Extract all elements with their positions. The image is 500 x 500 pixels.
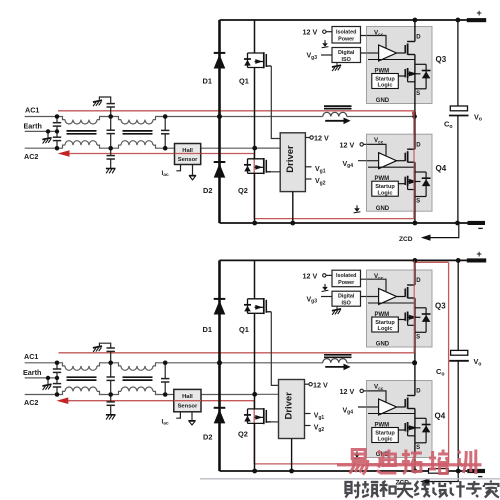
wire phase sense to driver (top): [255, 147, 281, 149]
ground at Earth node (top): [47, 131, 49, 137]
wire Q1 gate to driver (top): [271, 66, 280, 139]
wire driver to bottom bus (top): [292, 192, 294, 223]
wire red down fast leg: [413, 111, 415, 219]
wire isolated power to Vcc (top): [361, 36, 387, 49]
svg-text:Co: Co: [436, 367, 445, 378]
svg-text:Isolated: Isolated: [336, 29, 356, 35]
svg-text:D2: D2: [203, 186, 212, 195]
driver Vg1 pin (bottom): [305, 413, 311, 415]
wire Vcc feed inside block (bottom Q3): [367, 279, 387, 292]
svg-text:12 V: 12 V: [340, 140, 355, 149]
wire phase sense to driver (bottom): [255, 393, 279, 395]
bottom bus (bottom circuit): [220, 470, 430, 472]
Digital ISO box (top): [332, 48, 361, 63]
wire Vg4 to gate amp (top Q4): [358, 160, 379, 162]
svg-text:Vg4: Vg4: [343, 161, 354, 169]
wire AC2 / neutral line (top): [25, 141, 255, 149]
lower Y-cap + ground center (top): [110, 148, 112, 168]
positive terminal (bottom): [467, 258, 486, 262]
wire Vcc feed inside block (top Q4): [367, 144, 387, 156]
Driver box (top): [280, 133, 305, 192]
svg-text:12 V: 12 V: [340, 387, 355, 396]
positive terminal (top): [467, 18, 486, 22]
footer gray character 设: [433, 482, 448, 498]
wire Q2 gate to driver (bottom): [271, 421, 278, 423]
wire red AC2 return: [67, 400, 254, 402]
red wire through hall (top, overdrawn): [175, 153, 201, 155]
Isolated Power box (bottom): [332, 270, 361, 287]
wire Q2 gate to driver (top): [271, 171, 280, 173]
red overlay up fast leg over IC block (bottom): [413, 261, 415, 353]
watermark red character 拓: [402, 450, 422, 474]
wire input to amp inside block (bottom Q3): [367, 296, 379, 298]
ground at Earth node (bottom): [47, 378, 49, 384]
svg-text:Q1: Q1: [239, 77, 249, 86]
choke CM2 core (top): [123, 131, 153, 134]
svg-text:D1: D1: [203, 325, 212, 334]
capacitor CY1/CY2 branch at x=57 (bottom): [56, 363, 58, 395]
svg-text:Vg2: Vg2: [315, 178, 326, 186]
wire Q4 source to bottom bus: [414, 211, 416, 223]
arrow ground at Q4 GND (bottom): [354, 451, 361, 459]
Isolated Power box (top): [332, 27, 361, 44]
watermark red character 迪: [377, 450, 397, 474]
current arrow on inductor (bottom): [325, 366, 344, 368]
wire Earth line (top): [25, 130, 57, 132]
diode D1 (bottom): [214, 299, 226, 315]
wire Q3 drain from + bus (bottom): [414, 260, 416, 270]
svg-text:Iac: Iac: [162, 170, 169, 178]
driver Vg1 pin (top): [305, 166, 311, 168]
output cap branch wire (bottom): [457, 260, 459, 350]
wire driver to bottom bus (bottom): [291, 439, 293, 472]
footer gray character 家: [484, 481, 499, 498]
capacitor CX1 center (top): [110, 117, 112, 149]
svg-text:ZCD: ZCD: [399, 236, 413, 243]
svg-text:+: +: [477, 249, 482, 259]
wire Vcc feed inside block (top Q3): [367, 36, 387, 49]
wire red along + bus: [414, 261, 448, 263]
svg-text:Isolated: Isolated: [336, 273, 356, 279]
watermark red character 培: [429, 450, 449, 474]
svg-text:Vg3: Vg3: [307, 296, 318, 304]
svg-text:Vg1: Vg1: [314, 413, 325, 421]
Digital ISO box (bottom): [332, 291, 361, 306]
divider line above watermark footer: [200, 478, 500, 480]
svg-text:Q3: Q3: [436, 55, 447, 64]
wire phase line to fast leg (bottom): [347, 362, 415, 364]
wire Q3 source to phase node (bottom): [414, 347, 416, 363]
svg-text:Vg4: Vg4: [343, 407, 354, 415]
svg-text:+: +: [477, 8, 482, 18]
svg-text:Power: Power: [338, 36, 355, 42]
svg-text:Sensor: Sensor: [178, 403, 198, 409]
wire Vg4 to gate amp (bottom Q4): [358, 406, 379, 408]
D1 leg wire (top): [218, 20, 221, 117]
wire 12V to Vcc (top Q4): [363, 144, 386, 156]
wire Earth line (bottom): [25, 377, 57, 379]
Driver box (bottom): [279, 380, 305, 439]
wire phase line to fast leg (top): [347, 116, 415, 118]
svg-text:AC2: AC2: [24, 398, 38, 407]
svg-text:Sensor: Sensor: [178, 157, 198, 163]
svg-text:Digital: Digital: [338, 50, 355, 56]
boost inductor winding (top): [323, 112, 347, 116]
boost inductor core (bottom): [324, 355, 352, 358]
output cap branch wire (top): [457, 20, 459, 106]
upper ground + Y-cap center (top): [99, 97, 110, 104]
choke CM1 core (top): [67, 131, 97, 134]
svg-text:Vo: Vo: [474, 112, 482, 122]
watermark red underline bar: [337, 463, 482, 466]
svg-text:Driver: Driver: [285, 145, 296, 173]
arrow ground under 12V (bottom): [322, 284, 329, 292]
svg-text:Power: Power: [338, 280, 355, 286]
svg-text:12 V: 12 V: [303, 28, 318, 37]
Q1 leg wire (bottom): [254, 260, 256, 298]
wire Q4 drain from phase node (bottom): [414, 363, 416, 381]
gate driver IC block U4 for Q4 (bottom): [367, 381, 433, 459]
wire input to amp inside block (top Q4): [367, 160, 379, 162]
capacitor Co (top): [450, 106, 467, 111]
wire red up fast leg: [413, 261, 415, 353]
diode D2 (bottom): [214, 408, 226, 424]
capacitor CY1/CY2 branch at x=57 (top): [56, 117, 58, 149]
driver Vg2 pin (top): [305, 178, 311, 180]
red highlight current path (top circuit): [58, 111, 414, 219]
wire Q1 gate to driver (bottom): [271, 312, 278, 386]
svg-text:Driver: Driver: [284, 392, 295, 420]
wire AC2 / neutral line (bottom): [25, 387, 255, 395]
svg-text:Hall: Hall: [182, 394, 193, 400]
top bus (+) rail (bottom circuit): [220, 259, 468, 261]
capacitor CX2 right (bottom): [164, 363, 166, 395]
ZCD sense line (bottom): [429, 471, 458, 482]
svg-text:Q1: Q1: [239, 325, 249, 334]
svg-text:Vg2: Vg2: [314, 425, 325, 433]
capacitor CX1 center (bottom): [110, 363, 112, 395]
node phase junction (top): [412, 114, 417, 119]
wire red AC1 feed: [59, 352, 415, 354]
wire Vcc feed inside block (bottom Q4): [367, 391, 387, 403]
wire digital ISO to gate amp (top Q3): [361, 52, 379, 54]
svg-text:Q2: Q2: [238, 186, 248, 195]
footer gray character 专: [466, 481, 482, 497]
footer gray character 线: [414, 481, 430, 497]
hall pin ground (top): [192, 165, 194, 176]
arrow ground under 12V (top): [322, 40, 329, 48]
wire Q2 source to bus (top): [254, 173, 256, 223]
negative terminal (top): [468, 221, 486, 225]
wire red bottom return: [254, 463, 448, 465]
wire input to amp inside block (top Q3): [367, 52, 379, 54]
svg-text:ISO: ISO: [342, 57, 351, 63]
wire Q4 drain from phase node: [414, 117, 416, 135]
red arrow out AC2 (bottom): [57, 397, 69, 404]
svg-text:D1: D1: [203, 77, 212, 86]
negative terminal (bottom): [467, 469, 485, 473]
watermark red character 训: [458, 450, 476, 475]
svg-text:Vg3: Vg3: [307, 53, 318, 61]
driver 12V pin (top): [305, 137, 310, 139]
gate driver IC block U3 for Q3 (bottom): [367, 270, 433, 348]
svg-text:AC1: AC1: [24, 352, 38, 361]
bottom bus (top circuit): [220, 222, 468, 224]
ground under Digital ISO (top): [336, 63, 338, 66]
red arrow out AC2 (top): [58, 150, 70, 157]
diode D2 (top): [214, 162, 226, 178]
junction dots (bottom circuit): [46, 258, 461, 473]
svg-text:Co: Co: [444, 119, 453, 129]
wire Q4 source to bottom bus (bottom): [414, 457, 416, 471]
svg-text:AC1: AC1: [25, 106, 39, 115]
driver 12V pin (bottom): [305, 383, 309, 385]
capacitor CX2 right (top): [164, 117, 166, 149]
transistor Q2 (top): [244, 158, 271, 174]
svg-text:Q4: Q4: [436, 164, 447, 173]
wire red AC1 feed top: [58, 110, 414, 112]
svg-text:Earth: Earth: [24, 122, 42, 131]
lower Y-cap + ground center (bottom): [110, 395, 112, 415]
driver Vg2 pin (bottom): [305, 425, 311, 427]
wire red up Q2 leg: [253, 401, 255, 464]
top bus (+) rail (top circuit): [220, 19, 468, 21]
ground under Digital ISO (bottom): [336, 306, 338, 309]
boost inductor winding (bottom): [323, 359, 347, 363]
red overlay down fast leg over IC blocks (top): [413, 111, 415, 219]
Hall Sensor box (top): [175, 144, 201, 165]
upper ground + Y-cap center (bottom): [99, 343, 110, 348]
Hall Sensor box (bottom): [174, 389, 201, 411]
svg-text:12 V: 12 V: [314, 134, 329, 143]
wire red down load branch: [448, 262, 450, 464]
D1 leg wire (bottom): [218, 260, 221, 362]
hall pin ground (bottom): [191, 412, 193, 421]
hall pin Iac (bottom): [176, 412, 180, 418]
D2 leg wire (top): [218, 117, 221, 224]
current arrow on inductor (top): [325, 120, 344, 122]
node phase junction (bottom): [412, 360, 417, 365]
diode D1 (top): [214, 53, 226, 69]
svg-text:Vo: Vo: [474, 357, 482, 367]
wire Q3 drain from + bus: [414, 20, 416, 27]
watermark red character 易: [350, 450, 368, 475]
transistor Q2 (bottom): [244, 408, 271, 424]
footer gray character 和: [380, 481, 396, 497]
ZCD sense line (top): [430, 223, 459, 238]
footer gray character 频: [362, 481, 378, 498]
wire digital ISO to gate amp (bottom Q3): [361, 296, 379, 298]
boost inductor core (top): [324, 106, 352, 109]
svg-text:Q3: Q3: [435, 301, 446, 310]
wire AC1 / phase line (bottom): [25, 363, 323, 371]
gate driver IC block U3 for Q3 (top): [367, 27, 433, 105]
wire red bottom return: [254, 218, 414, 220]
svg-text:Earth: Earth: [23, 368, 41, 377]
wire input to amp inside block (bottom Q4): [367, 406, 379, 408]
wire isolated power to Vcc (bottom Q3): [361, 279, 387, 292]
svg-text:Vg1: Vg1: [315, 166, 326, 174]
footer gray character 射: [346, 482, 361, 498]
svg-text:Iac: Iac: [162, 418, 169, 426]
choke CM2 core (bottom): [123, 377, 153, 380]
footer gray character 天: [397, 484, 413, 498]
capacitor Co (bottom): [451, 350, 468, 355]
arrow ground at Q4 GND (top): [354, 205, 361, 213]
Q1 leg wire (top): [254, 20, 256, 53]
transistor Q1 (bottom): [244, 298, 271, 314]
wire 12V to Vcc (bottom Q4): [363, 391, 386, 403]
D2 leg wire (bottom): [218, 363, 221, 471]
svg-text:AC2: AC2: [24, 152, 38, 161]
red highlight current path (bottom circuit): [59, 261, 449, 464]
svg-text:ISO: ISO: [342, 301, 351, 307]
junction dots (top circuit): [46, 18, 461, 226]
svg-text:Q2: Q2: [238, 430, 248, 439]
svg-text:12 V: 12 V: [313, 380, 328, 389]
choke CM1 core (bottom): [67, 377, 97, 380]
svg-text:12 V: 12 V: [303, 271, 318, 280]
red node phase (top): [412, 111, 416, 115]
svg-text:Digital: Digital: [338, 294, 355, 300]
transistor Q1 (top): [244, 52, 271, 68]
wire red AC2 return: [67, 153, 254, 155]
wire Q2 source to bus (bottom): [254, 423, 256, 471]
svg-text:D2: D2: [203, 433, 212, 442]
svg-text:Q4: Q4: [435, 412, 446, 421]
wire Q3 source to phase node: [414, 103, 416, 116]
shunt resistor in return bus (bottom): [429, 469, 449, 474]
wire AC1 / phase line (top): [25, 117, 323, 124]
hall pin Iac (top): [176, 165, 180, 171]
wire red up Q2 leg: [253, 154, 255, 219]
footer gray character 计: [450, 481, 465, 498]
gate driver IC block U4 for Q4 (top): [367, 134, 433, 212]
red wire through hall (bottom, overdrawn): [174, 400, 201, 402]
